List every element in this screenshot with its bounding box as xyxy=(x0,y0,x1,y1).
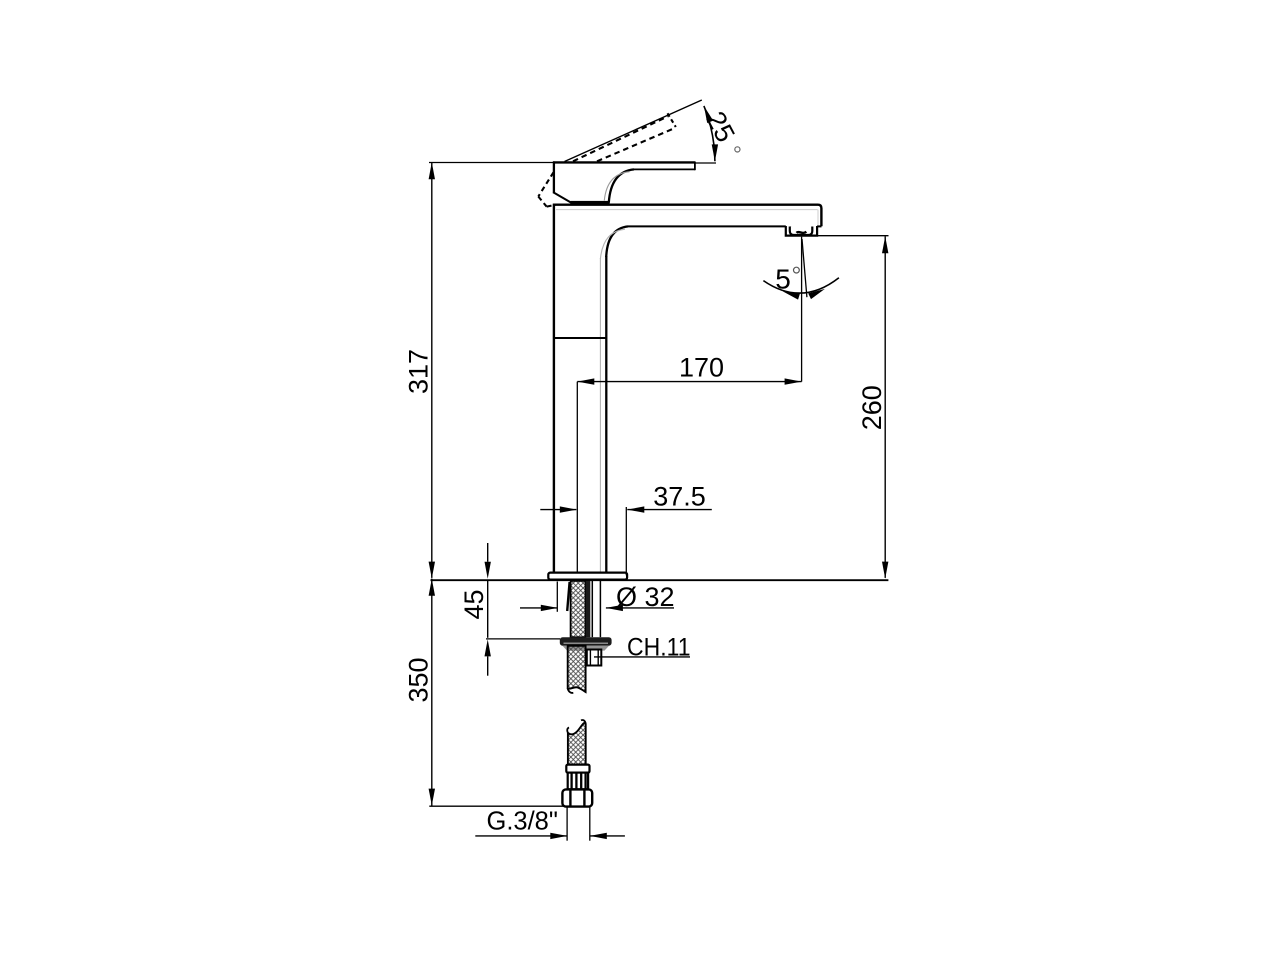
extension line aerator xyxy=(818,235,889,237)
base flange xyxy=(548,573,627,580)
37.5 left arrowhead xyxy=(560,506,577,512)
handle base dark band xyxy=(571,201,610,205)
faucet handle lever tip cap xyxy=(694,162,696,171)
37.5 extension line xyxy=(625,507,627,575)
spout inner highlight vertical xyxy=(817,210,819,226)
aerator housing xyxy=(786,226,817,236)
spout tip vertical line xyxy=(801,237,803,382)
aerator notch xyxy=(790,226,792,230)
hose fitting facet 2 xyxy=(597,650,599,666)
5 arc left arrowhead xyxy=(782,288,800,299)
hose tube line 2 xyxy=(599,581,601,637)
dimension 37.5 right segment xyxy=(627,509,712,511)
5 arc right arrowhead xyxy=(808,286,826,299)
dimension 350 line xyxy=(431,579,433,806)
dashed raised lever tip xyxy=(668,113,676,127)
317 top arrowhead xyxy=(429,162,435,179)
dimension 170 line xyxy=(577,381,801,383)
dashed handle rear edge xyxy=(538,172,553,196)
45 lower shaft xyxy=(487,656,489,675)
dashed raised lever line B xyxy=(597,129,674,162)
svg-text:CH.11: CH.11 xyxy=(627,633,691,661)
faucet handle underside of lever xyxy=(634,168,695,170)
5 degree tilted line xyxy=(802,239,807,297)
45 upper arrowhead xyxy=(485,562,491,579)
extension line lever tip xyxy=(695,162,716,164)
body left edge xyxy=(553,204,555,573)
svg-text:350: 350 xyxy=(404,657,434,702)
350 bottom arrowhead xyxy=(429,789,435,806)
extension line handle top xyxy=(429,162,553,164)
crimp rib 3 xyxy=(580,773,582,790)
aerator outlet wave xyxy=(797,232,807,233)
shank shadow line xyxy=(567,582,569,611)
hose crimp section xyxy=(568,773,588,790)
svg-text:170: 170 xyxy=(679,352,724,382)
CH.11 leader line xyxy=(594,656,690,658)
hose collar xyxy=(566,765,589,773)
aerator outlet xyxy=(790,227,813,236)
crimp rib 4 xyxy=(584,773,586,790)
25 arc upper arrowhead xyxy=(704,106,713,123)
25 arc lower arrowhead xyxy=(712,144,718,161)
hose fitting facet 1 xyxy=(589,650,591,666)
handle neck highlight xyxy=(604,172,629,201)
body axis extension line xyxy=(576,382,578,573)
svg-text:317: 317 xyxy=(404,349,434,394)
mounting nut shadow xyxy=(563,646,610,651)
G3/8 dimension left segment xyxy=(475,835,567,837)
45 line through counter xyxy=(487,581,489,638)
dashed handle rear closing xyxy=(547,205,556,207)
25 degree symbol xyxy=(735,147,740,152)
hex facet line 2 xyxy=(583,790,585,806)
spout underside line xyxy=(628,225,786,227)
extension line hose nut bottom xyxy=(429,805,563,807)
dimension 45 upper shaft xyxy=(487,543,489,562)
5 degree arc xyxy=(763,278,839,293)
170 right arrowhead xyxy=(785,378,802,384)
25 degree arc xyxy=(704,106,715,161)
svg-text:37.5: 37.5 xyxy=(653,481,706,511)
G3/8 right arrowhead xyxy=(590,833,607,839)
countertop line xyxy=(431,579,889,581)
connector hex nut xyxy=(562,789,592,806)
mounting nut xyxy=(560,637,612,646)
hex facet line 1 xyxy=(569,790,571,806)
dashed handle rear bottom xyxy=(538,197,546,207)
svg-text:45: 45 xyxy=(459,589,489,619)
spout corner curve xyxy=(606,226,628,257)
faucet handle front chamfer xyxy=(553,192,573,203)
svg-text:5: 5 xyxy=(775,263,791,294)
d32 left arrowhead xyxy=(541,605,558,611)
260 top arrowhead xyxy=(882,236,888,253)
317 bottom arrowhead xyxy=(429,562,435,579)
dimension 37.5 left segment xyxy=(540,509,576,511)
G3/8 extension line left xyxy=(566,807,568,841)
hose lower segment hatched xyxy=(568,723,586,765)
hose fitting tube xyxy=(587,650,602,666)
260 bottom arrowhead xyxy=(882,562,888,579)
dimension diameter 32 right segment xyxy=(606,607,674,609)
crimp rib 1 xyxy=(570,773,572,790)
dimension diameter 32 left segment xyxy=(520,607,557,609)
body highlight line xyxy=(599,258,601,572)
hose tube line 1 xyxy=(591,581,593,637)
body right edge xyxy=(605,256,607,573)
170 left arrowhead xyxy=(577,378,594,384)
hose break nub left xyxy=(567,727,569,732)
corner highlight curve xyxy=(600,229,625,259)
svg-text:260: 260 xyxy=(857,385,887,430)
hose upper segment hatched xyxy=(568,646,586,692)
37.5 right arrowhead xyxy=(627,506,644,512)
crimp rib 2 xyxy=(575,773,577,790)
svg-text:Ø 32: Ø 32 xyxy=(616,582,675,612)
d32 right arrowhead xyxy=(606,605,623,611)
G3/8 dimension right segment xyxy=(590,835,625,837)
spout inner highlight line xyxy=(556,209,818,211)
dashed raised lever line A xyxy=(573,116,668,161)
dimension 260 line xyxy=(884,236,886,578)
extension line nut top xyxy=(486,638,560,640)
faucet handle neck curve xyxy=(609,169,634,202)
G3/8 extension line right xyxy=(589,807,591,841)
svg-text:G.3/8": G.3/8" xyxy=(486,808,557,836)
hose break curl left xyxy=(568,688,574,693)
G3/8 left arrowhead xyxy=(550,833,567,839)
dark rod xyxy=(586,581,591,637)
spout bar top outline xyxy=(553,205,821,227)
body joint line xyxy=(554,337,606,339)
350 top arrowhead xyxy=(429,579,435,596)
5 degree symbol xyxy=(794,267,800,273)
faucet handle left edge xyxy=(553,161,555,193)
threaded shank hatched xyxy=(571,581,586,637)
25 degree ray xyxy=(565,100,702,162)
45 lower arrowhead xyxy=(485,639,491,656)
faucet handle lever top line xyxy=(553,161,695,163)
d32 extension line xyxy=(556,582,558,612)
dimension 317 line xyxy=(431,163,433,578)
spout underside right of aerator xyxy=(817,225,821,227)
hose break curl xyxy=(581,720,586,724)
mounting nut stripe xyxy=(564,642,609,644)
